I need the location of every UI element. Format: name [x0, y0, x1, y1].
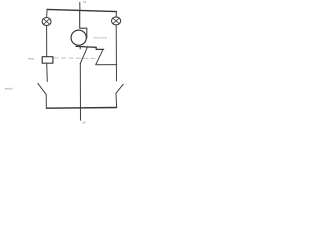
- contact bar under pump: [76, 45, 96, 48]
- wire: [46, 9, 49, 17]
- lamp H1: [42, 18, 51, 26]
- wire mid drop to bottom node: [79, 64, 81, 121]
- top supply rail: [47, 9, 116, 11]
- pump motor M1: [71, 30, 86, 45]
- switch S1 blade: [38, 83, 46, 94]
- lamp H2: [112, 17, 121, 25]
- pump outlet tab: [80, 11, 87, 38]
- wire: [45, 94, 47, 108]
- wire: [115, 25, 117, 81]
- bottom return rail: [46, 107, 116, 110]
- contact K1.1 blade: [80, 48, 87, 64]
- supply stub node: [79, 2, 81, 11]
- svg-text:relay: relay: [28, 57, 35, 61]
- wire: [115, 12, 117, 17]
- contact K1.2 bar: [96, 48, 103, 50]
- switch S2 blade: [116, 84, 123, 93]
- svg-text:motor pump: motor pump: [93, 36, 107, 40]
- relay coil K1: [42, 57, 53, 64]
- contact K1.2 blade: [96, 50, 103, 65]
- step wire: [95, 47, 97, 49]
- wire: [115, 93, 118, 107]
- svg-text:switch: switch: [5, 87, 13, 91]
- svg-text:0V: 0V: [82, 121, 86, 125]
- wire: [46, 26, 48, 57]
- contact stub: [79, 47, 81, 49]
- wire: [46, 63, 49, 81]
- wire: [96, 63, 117, 66]
- mechanical linkage dashed: [54, 57, 96, 59]
